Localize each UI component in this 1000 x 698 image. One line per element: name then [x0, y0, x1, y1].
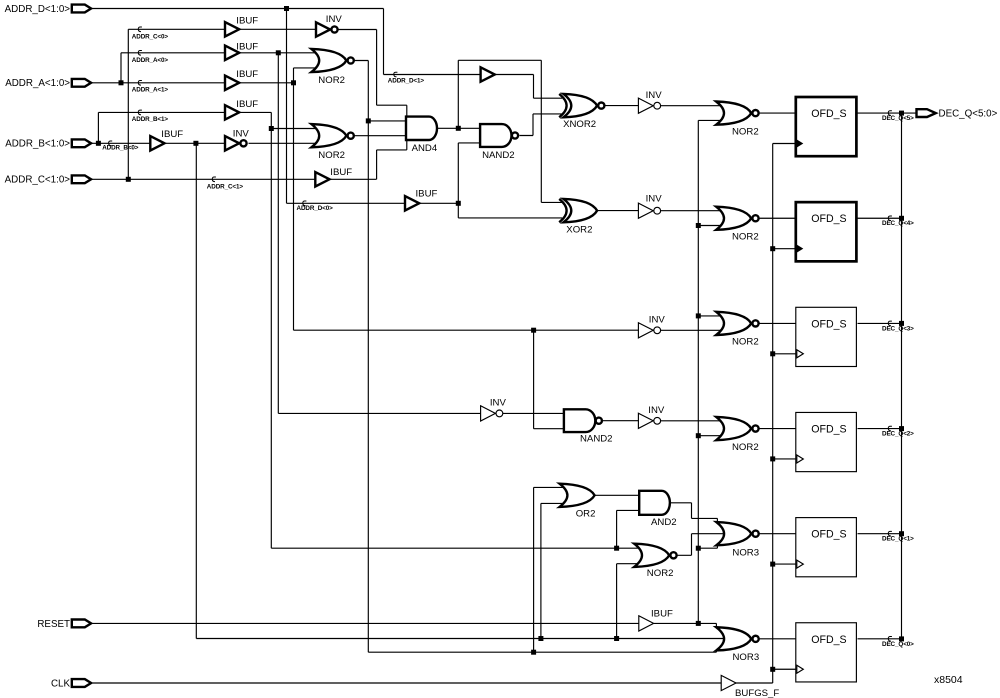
svg-text:ADDR_B<1:0>: ADDR_B<1:0>	[5, 139, 70, 150]
svg-text:INV: INV	[233, 129, 250, 140]
svg-text:RESET: RESET	[37, 619, 70, 630]
svg-text:IBUF: IBUF	[161, 129, 183, 140]
svg-text:CLK: CLK	[51, 678, 71, 689]
svg-text:DEC_Q<3>: DEC_Q<3>	[882, 325, 914, 332]
svg-text:BUFGS_F: BUFGS_F	[735, 688, 779, 698]
svg-text:NOR2: NOR2	[647, 568, 674, 579]
svg-text:NOR2: NOR2	[318, 75, 345, 86]
svg-text:IBUF: IBUF	[236, 15, 258, 26]
svg-text:OFD_S: OFD_S	[811, 634, 846, 646]
svg-text:NOR2: NOR2	[732, 126, 759, 137]
svg-text:x8504: x8504	[934, 674, 963, 686]
svg-text:ADDR_B<0>: ADDR_B<0>	[102, 145, 139, 152]
svg-text:INV: INV	[648, 405, 665, 416]
svg-text:AND2: AND2	[651, 517, 677, 528]
svg-text:XNOR2: XNOR2	[563, 119, 596, 130]
svg-text:OFD_S: OFD_S	[811, 529, 846, 541]
svg-text:NOR2: NOR2	[318, 150, 345, 161]
svg-text:INV: INV	[649, 314, 666, 325]
svg-text:NOR3: NOR3	[733, 652, 760, 663]
svg-text:INV: INV	[490, 398, 507, 409]
svg-text:ADDR_D<1>: ADDR_D<1>	[388, 78, 425, 85]
svg-text:ADDR_C<0>: ADDR_C<0>	[132, 34, 169, 41]
svg-text:NOR2: NOR2	[732, 232, 759, 243]
svg-text:ADDR_A<0>: ADDR_A<0>	[132, 57, 169, 64]
svg-text:OFD_S: OFD_S	[811, 108, 846, 120]
svg-text:ADDR_C<1>: ADDR_C<1>	[207, 183, 244, 190]
svg-text:DEC_Q<2>: DEC_Q<2>	[882, 431, 914, 438]
svg-text:DEC_Q<0>: DEC_Q<0>	[882, 641, 914, 648]
svg-text:DEC_Q<4>: DEC_Q<4>	[882, 220, 914, 227]
svg-text:ADDR_B<1>: ADDR_B<1>	[132, 116, 169, 123]
svg-text:IBUF: IBUF	[416, 188, 438, 199]
svg-text:ADDR_A<1>: ADDR_A<1>	[132, 87, 169, 94]
svg-text:NOR3: NOR3	[732, 548, 759, 559]
svg-text:IBUF: IBUF	[236, 99, 258, 110]
svg-text:DEC_Q<5>: DEC_Q<5>	[882, 115, 914, 122]
svg-text:DEC_Q<1>: DEC_Q<1>	[882, 536, 914, 543]
svg-text:IBUF: IBUF	[236, 42, 258, 53]
svg-text:XOR2: XOR2	[566, 225, 592, 236]
svg-text:IBUF: IBUF	[330, 167, 352, 178]
svg-text:OFD_S: OFD_S	[811, 213, 846, 225]
svg-text:NAND2: NAND2	[580, 434, 613, 445]
svg-text:NOR2: NOR2	[732, 442, 759, 453]
svg-text:DEC_Q<5:0>: DEC_Q<5:0>	[939, 109, 998, 120]
svg-text:IBUF: IBUF	[236, 69, 258, 80]
svg-text:OFD_S: OFD_S	[811, 423, 846, 435]
svg-text:INV: INV	[326, 14, 343, 25]
svg-text:IBUF: IBUF	[651, 609, 673, 620]
svg-text:INV: INV	[646, 90, 663, 101]
svg-text:OFD_S: OFD_S	[811, 318, 846, 330]
svg-text:INV: INV	[646, 194, 663, 205]
svg-text:NAND2: NAND2	[482, 150, 515, 161]
svg-text:OR2: OR2	[576, 509, 596, 520]
svg-text:ADDR_D<0>: ADDR_D<0>	[297, 205, 334, 212]
svg-text:ADDR_D<1:0>: ADDR_D<1:0>	[5, 4, 71, 15]
svg-text:ADDR_A<1:0>: ADDR_A<1:0>	[5, 78, 70, 89]
svg-text:AND4: AND4	[412, 143, 438, 154]
svg-text:NOR2: NOR2	[732, 337, 759, 348]
svg-text:ADDR_C<1:0>: ADDR_C<1:0>	[5, 175, 71, 186]
